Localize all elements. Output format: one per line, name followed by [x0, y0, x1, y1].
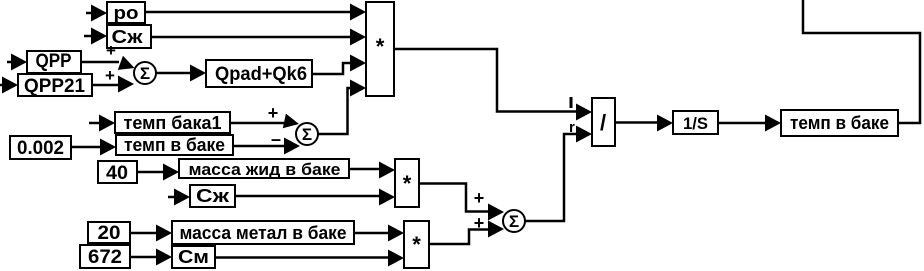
svg-text:Σ: Σ — [509, 212, 519, 231]
svg-text:0.002: 0.002 — [17, 138, 64, 159]
svg-text:темп в баке: темп в баке — [124, 135, 225, 155]
svg-text:Qpad+Qk6: Qpad+Qk6 — [215, 64, 307, 85]
svg-text:масса метал в баке: масса метал в баке — [180, 223, 347, 243]
svg-text:/: / — [600, 110, 606, 135]
svg-text:20: 20 — [98, 223, 121, 244]
svg-text:темп в баке: темп в баке — [790, 113, 889, 133]
svg-text:+: + — [268, 103, 279, 123]
svg-text:r: r — [569, 119, 575, 136]
svg-text:См: См — [178, 247, 209, 267]
svg-text:40: 40 — [106, 163, 128, 184]
svg-text:+: + — [105, 66, 115, 85]
svg-text:масса жид в баке: масса жид в баке — [189, 160, 341, 179]
svg-text:1/S: 1/S — [683, 114, 708, 133]
svg-text:*: * — [376, 34, 385, 59]
svg-text:Сж: Сж — [196, 186, 229, 206]
svg-text:*: * — [403, 171, 412, 196]
svg-text:темп бака1: темп бака1 — [124, 113, 222, 133]
svg-text:QPP21: QPP21 — [24, 76, 85, 97]
svg-text:+: + — [474, 188, 485, 208]
svg-text:+: + — [474, 213, 485, 233]
svg-text:Сж: Сж — [112, 27, 143, 47]
svg-text:–: – — [271, 129, 281, 149]
svg-text:ро: ро — [114, 3, 139, 23]
svg-text:Σ: Σ — [302, 125, 312, 144]
svg-text:+: + — [106, 41, 116, 60]
svg-text:Σ: Σ — [140, 64, 150, 83]
svg-text:QPP: QPP — [36, 51, 72, 72]
svg-text:*: * — [412, 232, 421, 257]
svg-text:672: 672 — [88, 247, 122, 268]
